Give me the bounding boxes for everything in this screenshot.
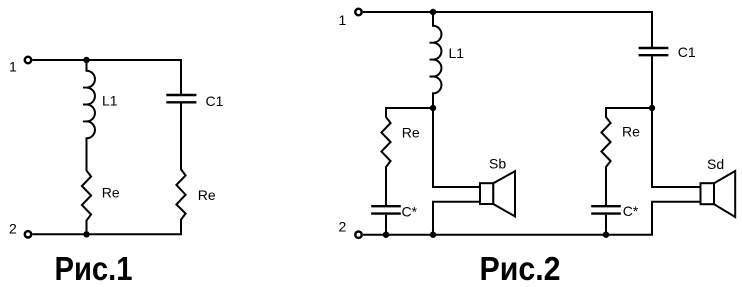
svg-text:Рис.2: Рис.2 <box>480 251 561 287</box>
svg-text:C1: C1 <box>206 93 224 109</box>
svg-text:C1: C1 <box>678 44 696 60</box>
svg-text:C*: C* <box>402 204 418 220</box>
svg-text:1: 1 <box>9 59 17 75</box>
svg-text:L1: L1 <box>449 45 465 61</box>
svg-text:C*: C* <box>623 203 639 219</box>
svg-text:L1: L1 <box>102 93 118 109</box>
svg-text:Re: Re <box>402 125 420 141</box>
svg-text:Re: Re <box>622 124 640 140</box>
svg-text:Sd: Sd <box>707 156 724 172</box>
svg-text:Рис.1: Рис.1 <box>55 251 133 287</box>
svg-text:Re: Re <box>198 187 216 203</box>
svg-text:Sb: Sb <box>489 156 506 172</box>
svg-text:2: 2 <box>9 221 17 237</box>
svg-text:1: 1 <box>339 12 347 28</box>
svg-text:2: 2 <box>339 219 347 235</box>
svg-text:Re: Re <box>102 184 120 200</box>
